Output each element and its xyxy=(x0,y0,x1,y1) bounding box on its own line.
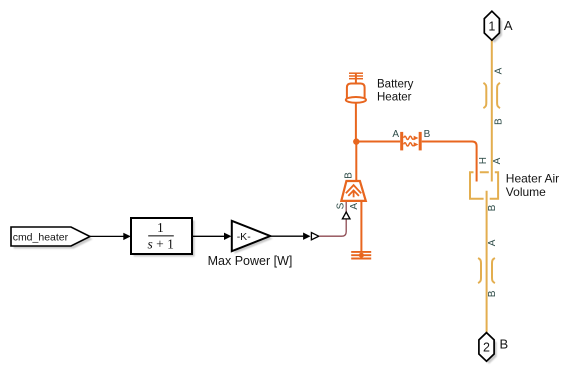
svg-text:A: A xyxy=(487,239,498,246)
svg-text:S: S xyxy=(336,202,347,209)
svg-text:B: B xyxy=(487,204,498,211)
svg-text:Battery: Battery xyxy=(377,78,414,90)
svg-text:cmd_heater: cmd_heater xyxy=(13,232,69,244)
svg-text:B: B xyxy=(487,290,498,297)
svg-text:A: A xyxy=(504,18,513,33)
svg-text:s + 1: s + 1 xyxy=(148,237,174,252)
svg-text:B: B xyxy=(344,172,355,179)
svg-text:A: A xyxy=(492,157,503,164)
svg-text:A: A xyxy=(493,67,504,74)
svg-text:H: H xyxy=(478,157,489,164)
svg-text:Heater: Heater xyxy=(377,91,412,103)
svg-text:1: 1 xyxy=(488,19,495,33)
svg-text:Heater Air: Heater Air xyxy=(506,172,559,186)
svg-text:A: A xyxy=(392,129,399,140)
svg-text:1: 1 xyxy=(157,220,164,235)
svg-text:Max Power [W]: Max Power [W] xyxy=(208,254,293,268)
svg-text:B: B xyxy=(500,336,509,351)
svg-text:Volume: Volume xyxy=(506,185,546,199)
svg-text:B: B xyxy=(493,118,504,125)
svg-text:B: B xyxy=(424,129,431,140)
svg-text:2: 2 xyxy=(483,340,490,354)
svg-text:A: A xyxy=(349,203,360,210)
svg-text:-K-: -K- xyxy=(237,231,252,243)
